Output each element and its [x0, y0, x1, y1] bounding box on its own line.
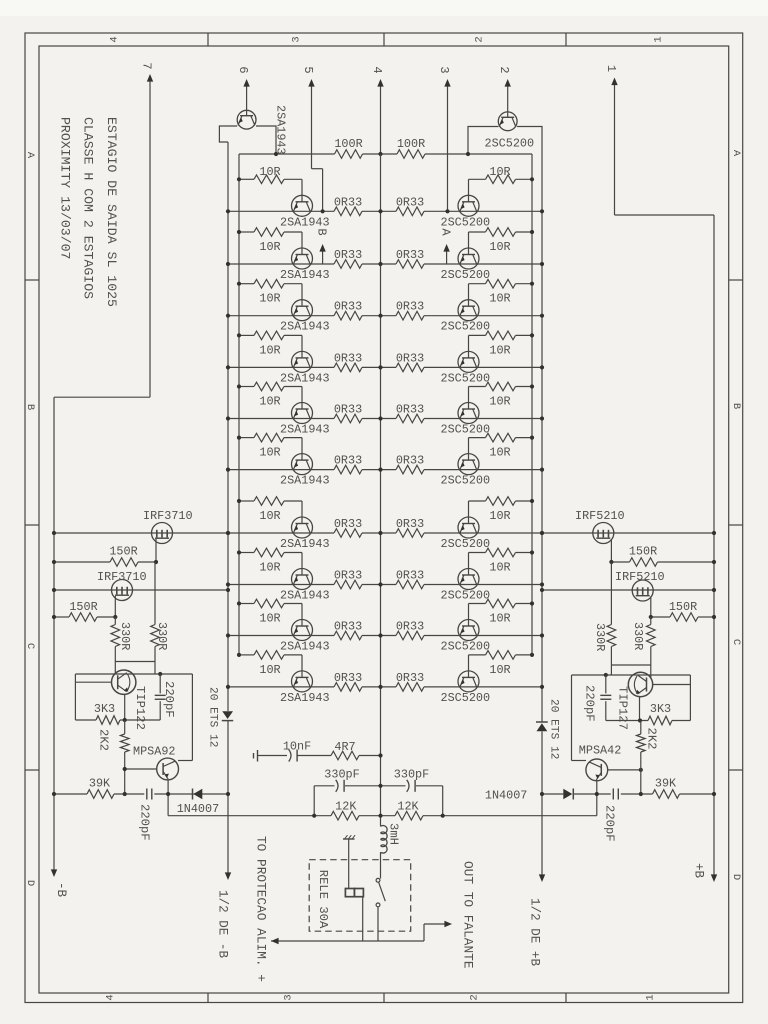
transistor Q23 TIP122 [112, 670, 148, 730]
resistor 10R row 3 right [469, 279, 535, 305]
label Q1 [280, 215, 330, 229]
resistor 10R row 1 left [237, 165, 302, 196]
junctions left mosfet block [52, 531, 230, 619]
resistor 4R7 [331, 740, 359, 760]
transistor Q3 2SA1943 [292, 300, 313, 321]
wire U4 source drop [650, 597, 652, 618]
wire out bottom run [271, 924, 424, 944]
wire row 1 emitter line [228, 210, 542, 212]
svg-text:3mH: 3mH [387, 823, 401, 845]
label RELE 30A [316, 870, 330, 929]
resistor 150R lower right [651, 600, 714, 621]
svg-text:10R: 10R [489, 292, 510, 306]
wire row 10 emitter line [228, 686, 542, 688]
resistor 0R33 row 6 left [334, 454, 362, 474]
junctions row 9 [226, 633, 544, 637]
svg-text:TIP127: TIP127 [616, 686, 630, 730]
svg-text:+B: +B [692, 863, 706, 879]
wire U2 source drop [114, 596, 116, 617]
label Q13 [441, 320, 491, 334]
svg-text:2SA1943: 2SA1943 [280, 268, 330, 282]
svg-text:10R: 10R [489, 165, 510, 179]
wire row 2 emitter line [228, 263, 542, 265]
resistor 10R row 5 left [237, 382, 302, 408]
resistor 0R33 row 2 right [396, 248, 424, 268]
wire Q25 base [653, 675, 691, 721]
svg-text:1: 1 [645, 994, 657, 1000]
svg-text:2: 2 [469, 994, 481, 1000]
label Q20 [441, 691, 491, 705]
svg-text:3K3: 3K3 [94, 702, 115, 716]
svg-text:330pF: 330pF [394, 768, 429, 782]
svg-text:0R33: 0R33 [334, 195, 362, 209]
svg-text:10R: 10R [489, 561, 510, 575]
diode 20 ETS 12 right [536, 699, 560, 759]
svg-text:2SC5200: 2SC5200 [441, 474, 491, 488]
transistor Q10 2SA1943 [292, 671, 313, 692]
transistor Q14 2SC5200 [458, 351, 479, 372]
label Q17 [441, 537, 491, 551]
svg-text:2SA1943: 2SA1943 [280, 691, 330, 705]
junctions row 2 [226, 262, 544, 266]
svg-text:330R: 330R [593, 623, 607, 651]
svg-text:10R: 10R [259, 561, 280, 575]
resistor 10R row 9 right [469, 599, 535, 625]
label Q12 [441, 268, 491, 282]
svg-text:3: 3 [437, 66, 451, 73]
resistor 0R33 row 3 right [396, 300, 424, 320]
transistor Q5 2SA1943 [292, 403, 313, 424]
wire zobel top line [314, 784, 443, 816]
resistor 330R right b [631, 617, 655, 665]
svg-text:150R: 150R [109, 545, 137, 559]
svg-text:1: 1 [653, 36, 665, 42]
capacitor 220pF right lower [574, 789, 618, 842]
svg-text:10R: 10R [489, 612, 510, 626]
svg-text:2SA1943: 2SA1943 [280, 474, 330, 488]
mosfet U4 IRF5210 [615, 570, 665, 601]
resistor 0R33 row 3 left [334, 300, 362, 320]
svg-text:150R: 150R [629, 545, 657, 559]
svg-text:10R: 10R [259, 446, 280, 460]
net arrow 2 [497, 66, 511, 112]
svg-text:2SC5200: 2SC5200 [441, 215, 491, 229]
net arrow 1/2 DE -B [216, 872, 232, 958]
wire Q26 collector [572, 675, 587, 761]
wire Q24 emitter [167, 779, 169, 815]
label Q3 [280, 320, 330, 334]
resistor 10R row 6 left [237, 433, 302, 459]
junctions right lower [540, 792, 716, 796]
svg-text:2SC5200: 2SC5200 [441, 320, 491, 334]
net arrow -B [51, 869, 68, 897]
svg-text:100R: 100R [334, 137, 362, 151]
svg-text:B: B [24, 404, 36, 410]
relay coil K1 [345, 889, 363, 897]
resistor 10R row 4 right [469, 331, 535, 357]
svg-text:C: C [730, 639, 742, 645]
wire row 3 emitter line [228, 315, 542, 317]
svg-text:2K2: 2K2 [645, 728, 659, 750]
svg-text:0R33: 0R33 [396, 248, 424, 262]
label Q18 [441, 589, 491, 603]
transistor Q8 2SA1943 [292, 569, 313, 590]
transistor Q22 2SC5200 driver [498, 112, 517, 131]
resistor 10R row 9 left [237, 599, 302, 625]
resistor 0R33 row 8 right [396, 569, 424, 589]
wire Q25 emitter [638, 697, 642, 723]
svg-text:0R33: 0R33 [396, 351, 424, 365]
resistor 10R row 6 right [469, 433, 535, 459]
resistor 12K right [395, 800, 423, 821]
label Q11 [441, 215, 491, 229]
junctions right mosfet block [540, 531, 716, 619]
svg-text:2SC5200: 2SC5200 [441, 371, 491, 385]
resistor 39K left [54, 777, 144, 799]
net arrow 6 [236, 66, 250, 110]
transistor Q9 2SA1943 [292, 620, 313, 641]
svg-text:10R: 10R [259, 165, 280, 179]
label Q8 [280, 589, 330, 603]
transistor Q26 MPSA42 [579, 744, 621, 781]
svg-text:10R: 10R [489, 240, 510, 254]
svg-text:4R7: 4R7 [334, 740, 355, 754]
label Q5 [280, 423, 330, 437]
transistor Q6 2SA1943 [292, 454, 313, 475]
resistor 10R row 10 left [237, 651, 302, 677]
net arrow +B [692, 863, 718, 882]
svg-text:0R33: 0R33 [396, 300, 424, 314]
svg-text:PROXIMITY 13/03/07: PROXIMITY 13/03/07 [58, 117, 73, 259]
wire 330R join right [611, 665, 650, 678]
junctions left lower [52, 792, 230, 796]
svg-text:2SA1943: 2SA1943 [280, 423, 330, 437]
svg-text:MPSA42: MPSA42 [579, 744, 621, 758]
wire Q21 base bracket [219, 126, 237, 142]
junctions row 10 [226, 685, 544, 689]
resistor 10R row 2 right [469, 228, 535, 254]
svg-text:MPSA92: MPSA92 [133, 745, 175, 759]
title text line 2 [81, 117, 96, 299]
svg-text:10R: 10R [259, 292, 280, 306]
svg-text:C: C [24, 643, 36, 649]
transistor Q24 MPSA92 [133, 745, 179, 780]
mosfet U1 IRF3710 [143, 509, 193, 544]
resistor 0R33 row 9 left [334, 620, 362, 640]
svg-text:1N4007: 1N4007 [485, 789, 527, 803]
svg-text:A: A [24, 152, 36, 159]
svg-text:TO PROTECAO ALIM. +: TO PROTECAO ALIM. + [254, 836, 269, 982]
svg-text:10R: 10R [489, 663, 510, 677]
wire speaker line [168, 815, 597, 817]
resistor 10R row 7 right [469, 497, 535, 523]
wire center output rail [380, 154, 382, 879]
junctions bias bus [274, 152, 470, 156]
inductor 3mH [381, 823, 401, 853]
transistor Q12 2SC5200 [458, 248, 479, 269]
svg-text:0R33: 0R33 [334, 248, 362, 262]
wire right base bus [531, 154, 533, 655]
title text line 1 [104, 117, 119, 307]
capacitor 10nF [283, 740, 311, 762]
svg-text:0R33: 0R33 [334, 403, 362, 417]
label Q14 [441, 371, 491, 385]
wire U3 source drop [610, 539, 612, 562]
svg-text:12K: 12K [335, 800, 357, 814]
svg-text:IRF5210: IRF5210 [575, 509, 625, 523]
svg-text:2SA1943: 2SA1943 [280, 320, 330, 334]
svg-text:10R: 10R [259, 240, 280, 254]
svg-text:2: 2 [497, 66, 511, 73]
transistor Q18 2SC5200 [458, 569, 479, 590]
svg-text:1: 1 [604, 65, 618, 72]
svg-text:0R33: 0R33 [396, 195, 424, 209]
label Q4 [280, 371, 330, 385]
svg-text:2SA1943: 2SA1943 [280, 215, 330, 229]
capacitor 330pF left [324, 768, 359, 792]
svg-text:39K: 39K [89, 777, 111, 791]
svg-text:0R33: 0R33 [334, 517, 362, 531]
junctions row 8 [226, 582, 544, 586]
wire Q26 emitter [596, 780, 598, 815]
wire Q23 base [75, 674, 111, 720]
resistor 0R33 row 1 right [396, 195, 424, 215]
relay switch contacts [376, 878, 385, 906]
junctions speaker line [312, 814, 445, 818]
svg-text:330R: 330R [631, 622, 645, 650]
wire 10nF-4R7 branch [254, 750, 383, 762]
wire bias bus [239, 153, 532, 155]
svg-text:RELE 30A: RELE 30A [316, 870, 330, 929]
svg-text:D: D [730, 874, 742, 880]
svg-text:TIP122: TIP122 [133, 686, 147, 730]
resistor 0R33 row 2 left [334, 248, 362, 268]
title text line 3 [58, 117, 73, 259]
wire IRF5210 lower line [542, 589, 714, 591]
resistor 330R left b [151, 562, 169, 674]
label 2SA1943 driver [274, 105, 288, 155]
wire TIP127 block top line [572, 673, 691, 677]
wire node5 jog [312, 169, 323, 212]
capacitor 220pF left block [155, 674, 176, 720]
svg-text:0R33: 0R33 [334, 300, 362, 314]
wire switch to out [377, 907, 379, 941]
wire Q24 base [123, 767, 157, 771]
transistor Q2 2SA1943 [292, 248, 313, 269]
svg-text:2SC5200: 2SC5200 [441, 268, 491, 282]
resistor 0R33 row 7 left [334, 517, 362, 537]
svg-text:4: 4 [109, 36, 121, 42]
junctions row 4 [226, 365, 544, 369]
junctions row 5 [226, 416, 544, 420]
net arrow 5 [301, 66, 315, 168]
resistor 3K3 right [606, 702, 691, 725]
transistor Q21 2SA1943 driver [237, 110, 256, 129]
svg-text:0R33: 0R33 [396, 569, 424, 583]
svg-text:7: 7 [139, 62, 153, 69]
svg-text:20 ETS 12: 20 ETS 12 [548, 699, 560, 759]
svg-text:2K2: 2K2 [97, 729, 111, 751]
junctions row 3 [226, 314, 544, 318]
svg-text:1N4007: 1N4007 [177, 802, 219, 816]
wire row 4 emitter line [228, 366, 542, 368]
svg-text:10R: 10R [489, 395, 510, 409]
transistor Q7 2SA1943 [292, 517, 313, 538]
svg-text:330R: 330R [155, 622, 169, 650]
svg-text:B: B [314, 228, 328, 235]
svg-text:0R33: 0R33 [396, 620, 424, 634]
resistor 0R33 row 6 right [396, 454, 424, 474]
wire Q23 emitter [123, 694, 127, 722]
wire row 5 emitter line [228, 418, 542, 420]
resistor 0R33 row 10 right [396, 671, 424, 691]
transistor Q4 2SA1943 [292, 351, 313, 372]
label Q6 [280, 474, 330, 488]
wire Q22 emitter to right rail [517, 127, 542, 155]
svg-text:2SC5200: 2SC5200 [441, 537, 491, 551]
svg-text:10R: 10R [259, 395, 280, 409]
svg-text:10R: 10R [489, 343, 510, 357]
svg-text:D: D [24, 880, 36, 886]
transistor Q15 2SC5200 [458, 403, 479, 424]
wire row 7 emitter line [54, 532, 714, 534]
resistor 10R row 10 right [469, 651, 535, 677]
resistor 150R upper left [54, 545, 156, 567]
svg-text:A: A [438, 228, 452, 236]
wire left output rail [227, 142, 229, 875]
svg-text:0R33: 0R33 [334, 671, 362, 685]
net arrow 4 [370, 66, 384, 154]
label 2SC5200 driver [485, 137, 535, 151]
svg-text:220pF: 220pF [583, 685, 597, 722]
resistor 0R33 row 10 left [334, 671, 362, 691]
svg-text:CLASSE H COM 2 ESTAGIOS: CLASSE H COM 2 ESTAGIOS [81, 117, 96, 299]
svg-text:2SC5200: 2SC5200 [441, 589, 491, 603]
svg-text:2SC5200: 2SC5200 [441, 691, 491, 705]
svg-text:2: 2 [474, 36, 486, 42]
resistor 100R right [397, 137, 425, 158]
wire IRF3710 lower line [54, 589, 228, 591]
svg-text:4: 4 [105, 994, 117, 1000]
resistor 150R upper right [611, 545, 714, 567]
resistor 100R left [334, 137, 362, 158]
svg-text:2SA1943: 2SA1943 [280, 371, 330, 385]
svg-text:10nF: 10nF [283, 740, 311, 754]
diode D2 1N4007 right [485, 789, 573, 803]
svg-text:0R33: 0R33 [334, 569, 362, 583]
wire row 9 emitter line [228, 635, 542, 637]
svg-text:12K: 12K [397, 800, 419, 814]
diode 20 ETS 12 left [207, 687, 234, 747]
wire relay coil drop [362, 897, 364, 941]
wire U1 source drop [155, 539, 157, 562]
svg-text:150R: 150R [669, 600, 697, 614]
svg-text:5: 5 [301, 66, 315, 73]
svg-text:10R: 10R [489, 509, 510, 523]
resistor 10R row 8 left [237, 548, 302, 574]
svg-text:220pF: 220pF [162, 681, 176, 718]
svg-text:6: 6 [236, 66, 250, 73]
wire row 8 emitter line [228, 584, 542, 586]
svg-text:220pF: 220pF [602, 805, 616, 842]
wire left base bus [238, 154, 240, 655]
transistor Q17 2SC5200 [458, 517, 479, 538]
net arrow OUT TO FALANTE [424, 861, 476, 969]
label Q7 [280, 537, 330, 551]
diode D1 1N4007 left [177, 789, 219, 817]
resistor 3K3 left [75, 702, 160, 724]
svg-text:220pF: 220pF [138, 804, 152, 841]
capacitor 220pF left lower [138, 789, 229, 841]
svg-text:OUT TO FALANTE: OUT TO FALANTE [461, 861, 476, 969]
wire Q22 base drop [468, 127, 498, 155]
label Q2 [280, 268, 330, 282]
svg-text:ESTAGIO DE SAIDA SL 1025: ESTAGIO DE SAIDA SL 1025 [104, 117, 119, 307]
svg-text:3: 3 [283, 994, 295, 1000]
resistor 330R right a [593, 562, 616, 675]
svg-text:10R: 10R [489, 446, 510, 460]
label Q9 [280, 640, 330, 654]
svg-text:A: A [730, 150, 742, 157]
svg-text:0R33: 0R33 [396, 454, 424, 468]
transistor Q13 2SC5200 [458, 300, 479, 321]
resistor 10R row 5 right [469, 382, 535, 408]
net arrow 1 [604, 65, 618, 215]
svg-text:2SA1943: 2SA1943 [280, 640, 330, 654]
wire Q24 collector [178, 674, 192, 761]
resistor 39K right [621, 777, 714, 799]
net arrow 1/2 DE +B [528, 874, 546, 966]
svg-text:150R: 150R [69, 600, 97, 614]
svg-text:2SC5200: 2SC5200 [441, 640, 491, 654]
svg-text:3: 3 [291, 36, 303, 42]
wire node7 jog [54, 396, 150, 398]
svg-text:20 ETS 12: 20 ETS 12 [207, 687, 219, 747]
wire Q26 base [608, 768, 643, 772]
transistor Q1 2SA1943 [292, 195, 313, 216]
resistor 0R33 row 4 left [334, 351, 362, 371]
mosfet U3 IRF5210 [575, 509, 625, 544]
wire TIP block top line [75, 672, 192, 676]
svg-text:1/2 DE +B: 1/2 DE +B [528, 898, 542, 966]
wire right output rail [541, 154, 543, 877]
svg-text:10R: 10R [259, 343, 280, 357]
relay box dashed [309, 860, 411, 932]
resistor 2K2 right [637, 721, 659, 795]
svg-text:10R: 10R [259, 509, 280, 523]
node A [438, 209, 452, 264]
mosfet U2 IRF3710 [97, 570, 147, 601]
wire right outer rail [713, 215, 715, 877]
wire row 6 emitter line [228, 469, 542, 471]
label Q16 [441, 474, 491, 488]
svg-text:0R33: 0R33 [334, 454, 362, 468]
transistor Q11 2SC5200 [458, 195, 479, 216]
label Q15 [441, 423, 491, 437]
svg-text:0R33: 0R33 [396, 403, 424, 417]
junctions row 1 [226, 209, 544, 213]
wire node1 to right rail [615, 214, 715, 216]
svg-text:10R: 10R [259, 612, 280, 626]
resistor 0R33 row 5 right [396, 403, 424, 423]
svg-text:0R33: 0R33 [334, 351, 362, 365]
resistor 10R row 8 right [469, 548, 535, 574]
transistor Q16 2SC5200 [458, 454, 479, 475]
svg-text:39K: 39K [655, 777, 677, 791]
transistor Q25 TIP127 [616, 672, 653, 730]
resistor 0R33 row 8 left [334, 569, 362, 589]
svg-text:2SC5200: 2SC5200 [441, 423, 491, 437]
